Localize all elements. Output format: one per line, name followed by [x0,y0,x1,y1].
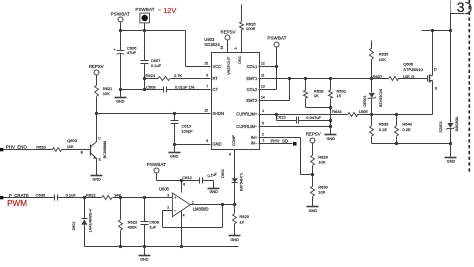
svg-text:13: 13 [261,85,265,89]
svg-text:COL2: COL2 [247,87,258,92]
svg-text:1: 1 [263,138,265,142]
svg-text:1N6293A: 1N6293A [455,116,459,132]
svg-text:14: 14 [261,95,265,99]
svg-text:GND: GND [140,258,149,262]
svg-text:47uF: 47uF [127,50,137,55]
svg-text:1uF: 1uF [149,224,156,229]
svg-text:3: 3 [234,47,238,49]
svg-text:RT: RT [213,76,219,81]
svg-text:BAT54HT1: BAT54HT1 [239,173,243,191]
svg-text:PHV_SD: PHV_SD [271,139,289,144]
svg-text:430K: 430K [128,225,138,230]
svg-text:D: D [434,67,437,72]
svg-text:10: 10 [204,109,208,113]
svg-text:10K: 10K [67,144,74,149]
svg-text:REPSV: REPSV [89,64,104,69]
svg-text:DE601: DE601 [363,95,367,106]
svg-text:Q606: Q606 [403,61,414,66]
svg-text:STP25N10: STP25N10 [403,67,423,72]
svg-text:BZV55C16: BZV55C16 [379,89,383,107]
svg-text:COL1: COL1 [247,64,258,69]
svg-text:1N4148WS-V: 1N4148WS-V [88,208,93,232]
svg-text:R639: R639 [379,121,389,126]
svg-text:150E: 150E [359,109,369,114]
svg-text:2: 2 [167,206,169,210]
svg-text:R640: R640 [402,121,412,126]
svg-text:GND: GND [213,141,222,146]
svg-text:+: + [114,48,116,52]
svg-text:U605: U605 [159,187,170,192]
svg-text:0.2E: 0.2E [402,127,411,132]
svg-text:=: = [158,8,161,13]
svg-text:6: 6 [206,73,208,77]
svg-text:CT: CT [213,87,219,92]
svg-text:SHDN: SHDN [213,111,225,116]
svg-text:1K: 1K [314,93,319,98]
svg-text:5: 5 [262,121,264,125]
svg-text:IN−: IN− [251,141,258,146]
svg-text:D602: D602 [72,222,76,231]
svg-text:BC868MM: BC868MM [103,141,107,158]
svg-text:0.1uF: 0.1uF [66,193,77,198]
svg-text:12V: 12V [163,6,176,15]
svg-text:REPSV: REPSV [221,29,236,34]
svg-text:S: S [435,86,438,91]
svg-text:Q603: Q603 [67,138,78,143]
svg-text:1K: 1K [337,93,342,98]
svg-text:0.01uF 1%: 0.01uF 1% [175,84,195,89]
svg-text:GND: GND [170,155,179,159]
svg-text:10K: 10K [103,91,110,96]
svg-text:SG3524: SG3524 [204,42,220,47]
svg-text:100E: 100E [246,26,256,31]
svg-text:VCC: VCC [213,64,222,69]
svg-text:3: 3 [167,194,169,198]
svg-text:R620: R620 [36,145,46,150]
svg-text:11: 11 [261,73,265,77]
svg-text:10K: 10K [379,57,386,62]
svg-text:C615: C615 [276,115,286,120]
svg-text:1K: 1K [239,219,244,224]
svg-text:0.1uF: 0.1uF [151,63,162,68]
svg-text:COMP: COMP [232,134,236,146]
svg-text:−: − [174,209,177,214]
svg-text:GND: GND [230,238,239,242]
svg-text:100pF: 100pF [181,128,193,133]
svg-text:LM358D: LM358D [193,207,209,212]
svg-text:15: 15 [204,61,208,65]
svg-text:GND: GND [116,100,125,104]
svg-text:+: + [174,195,177,200]
svg-text:12: 12 [261,61,265,65]
svg-text:GND: GND [92,178,101,182]
svg-text:OSC: OSC [238,55,242,63]
svg-text:C635: C635 [36,193,46,198]
svg-text:9: 9 [229,153,231,157]
svg-text:GND: GND [209,190,218,194]
svg-text:CURRLIM−: CURRLIM− [236,124,258,129]
svg-text:2.7K: 2.7K [174,73,183,78]
svg-text:IN+: IN+ [251,135,258,140]
svg-text:REPSV: REPSV [306,131,321,136]
svg-text:PSWBAT: PSWBAT [147,162,166,167]
svg-text:0.047uF: 0.047uF [306,115,321,120]
svg-text:R635: R635 [379,51,389,56]
svg-text:R624: R624 [146,73,156,78]
svg-text:10K: 10K [318,159,325,164]
svg-text:16: 16 [220,46,224,50]
svg-text:C612: C612 [182,175,192,180]
svg-text:R637: R637 [373,74,383,79]
svg-text:PSWBAT: PSWBAT [267,36,286,41]
svg-text:EMT2: EMT2 [246,98,258,103]
svg-text:GND: GND [326,137,335,141]
svg-text:3: 3 [457,0,465,15]
svg-text:R634: R634 [332,109,342,114]
svg-text:C609: C609 [146,84,156,89]
svg-text:1: 1 [192,200,194,204]
svg-text:GND: GND [447,159,456,163]
svg-text:2: 2 [262,133,264,137]
svg-text:VREFOUT: VREFOUT [227,56,231,75]
svg-text:G: G [411,74,414,79]
svg-text:0.1E: 0.1E [379,127,388,132]
svg-text:EMT1: EMT1 [246,76,258,81]
svg-text:GND: GND [309,209,318,213]
svg-text:R622: R622 [86,193,96,198]
svg-text:4: 4 [183,214,185,218]
svg-text:DZ602: DZ602 [439,121,443,132]
svg-text:7: 7 [206,85,208,89]
svg-text:PWM: PWM [7,199,27,208]
svg-text:10E: 10E [403,74,410,79]
svg-text:10K: 10K [318,190,325,195]
svg-text:8: 8 [183,183,185,187]
svg-text:8: 8 [206,139,208,143]
svg-text:PSWBAT: PSWBAT [111,11,130,16]
svg-text:D601: D601 [221,169,225,178]
svg-text:PHV_ENO: PHV_ENO [6,145,28,150]
svg-text:CURRLIM+: CURRLIM+ [236,111,258,116]
svg-text:PSWBAT: PSWBAT [135,7,154,12]
svg-text:4: 4 [262,109,264,113]
